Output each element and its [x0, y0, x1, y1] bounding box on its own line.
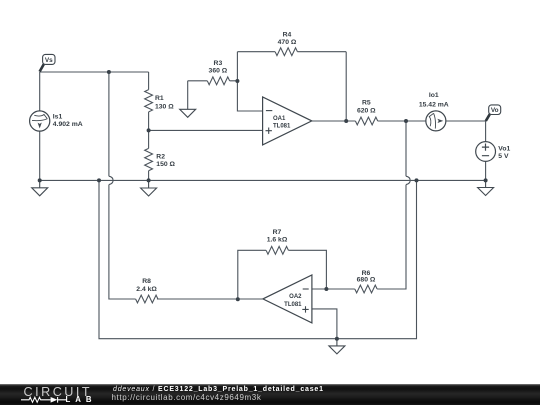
svg-text:2.4 kΩ: 2.4 kΩ — [136, 286, 157, 293]
svg-text:R7: R7 — [273, 229, 282, 236]
svg-text:Vo: Vo — [491, 107, 499, 114]
svg-text:OA2: OA2 — [289, 294, 302, 300]
svg-text:R1: R1 — [155, 95, 164, 102]
svg-text:Vs: Vs — [45, 57, 53, 64]
svg-text:R3: R3 — [214, 60, 223, 67]
svg-text:15.42 mA: 15.42 mA — [419, 102, 449, 109]
svg-text:1.6 kΩ: 1.6 kΩ — [267, 237, 288, 244]
svg-text:5 V: 5 V — [498, 153, 509, 160]
svg-text:OA1: OA1 — [273, 116, 286, 122]
svg-text:TL081: TL081 — [273, 124, 291, 130]
svg-text:TL081: TL081 — [284, 302, 302, 308]
svg-text:620 Ω: 620 Ω — [357, 107, 376, 114]
svg-text:150 Ω: 150 Ω — [156, 161, 175, 168]
svg-text:680 Ω: 680 Ω — [357, 277, 376, 284]
svg-text:Io1: Io1 — [429, 92, 439, 99]
svg-text:Is1: Is1 — [53, 113, 63, 120]
svg-text:470 Ω: 470 Ω — [278, 39, 297, 46]
svg-text:R8: R8 — [142, 278, 151, 285]
svg-text:Vo1: Vo1 — [498, 146, 510, 153]
svg-text:R4: R4 — [283, 31, 292, 38]
svg-text:R2: R2 — [156, 153, 165, 160]
svg-text:130 Ω: 130 Ω — [155, 104, 174, 111]
svg-text:4.902 mA: 4.902 mA — [53, 121, 83, 128]
svg-text:360 Ω: 360 Ω — [209, 68, 228, 75]
svg-text:R5: R5 — [362, 99, 371, 106]
